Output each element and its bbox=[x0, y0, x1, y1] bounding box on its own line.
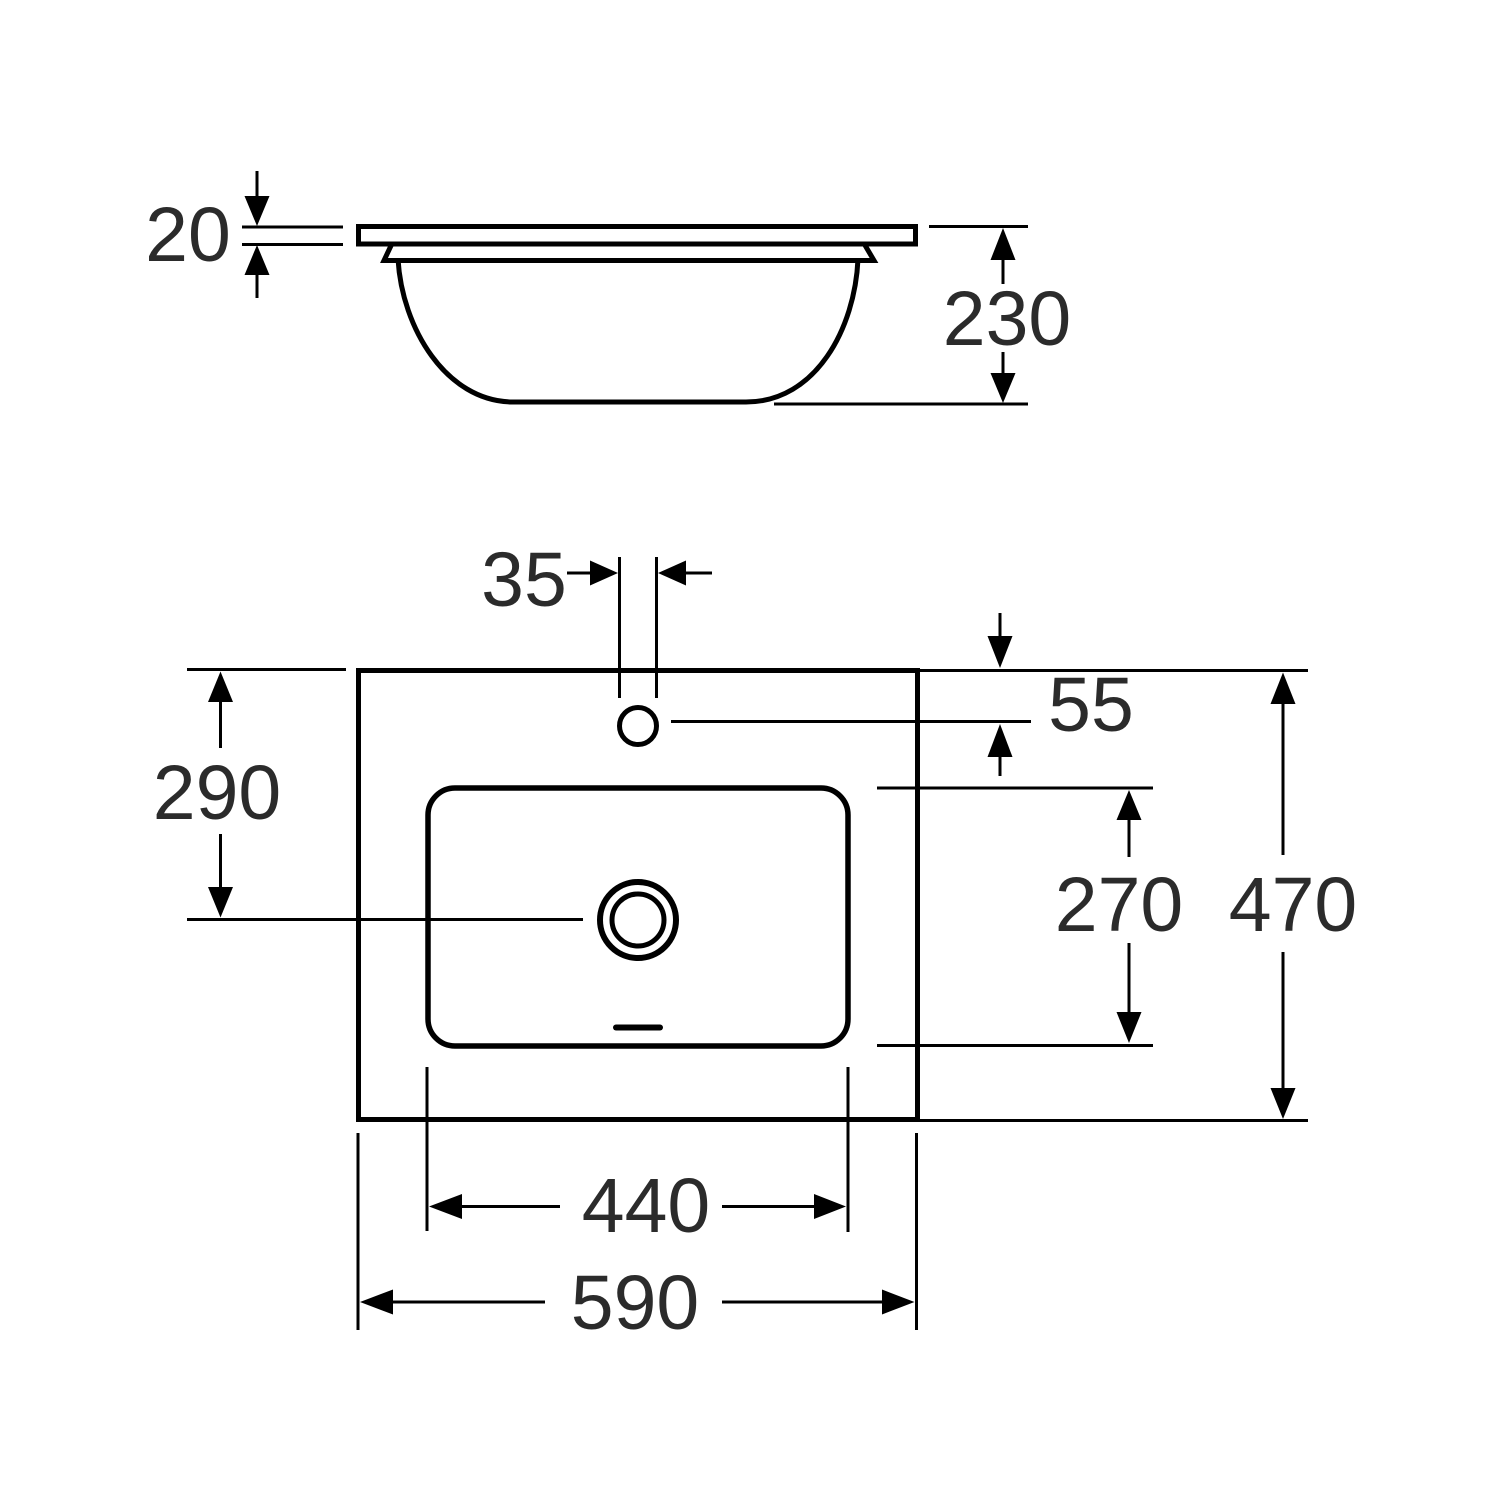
dimension 440: right arrow (points right) bbox=[722, 1205, 814, 1208]
dimension 470: upper arrow (points up) bbox=[1271, 673, 1296, 705]
dimension 440: right extension line bbox=[847, 1067, 850, 1232]
dimension 590: left arrow (points left) bbox=[360, 1290, 393, 1315]
dimension 290: lower arrow (points down) bbox=[219, 834, 222, 887]
dimension 35: right extension line bbox=[655, 557, 658, 698]
svg-text:20: 20 bbox=[145, 192, 231, 278]
faucet hole (35 mm) bbox=[620, 708, 657, 745]
dimension 270: lower arrow (points down) bbox=[1128, 943, 1131, 1013]
dimension 35: left arrow (points right) bbox=[567, 572, 590, 575]
dimension 230: upper arrow (points up) bbox=[991, 228, 1016, 260]
dimension 470: lower arrow (points down) bbox=[1282, 952, 1285, 1089]
dimension 590: left extension line bbox=[357, 1133, 360, 1330]
dimension 55: lower arrow (points up) bbox=[988, 724, 1013, 757]
dimension 20: top extension line bbox=[242, 226, 343, 229]
dimension 590: right arrow (points right) bbox=[722, 1301, 882, 1304]
dimension 230: top extension line bbox=[929, 225, 1028, 228]
svg-text:440: 440 bbox=[582, 1163, 710, 1249]
dimension 55: top extension line (rect top edge extended) bbox=[920, 669, 1308, 672]
dimension 20: lower arrow (points up) bbox=[245, 245, 270, 275]
drain inner circle bbox=[612, 894, 664, 946]
dimension 470: bottom extension line (rect bottom edge extended) bbox=[920, 1119, 1308, 1122]
countertop outline rectangle 590x470 bbox=[359, 671, 918, 1120]
dimension 20: upper arrow (points down) bbox=[256, 171, 259, 198]
inner basin rounded rectangle bbox=[428, 788, 848, 1046]
svg-text:470: 470 bbox=[1229, 862, 1357, 948]
svg-text:290: 290 bbox=[153, 750, 281, 836]
dimension 290: bottom extension line (through drain centre) bbox=[187, 918, 583, 921]
dimension 35: right arrow (points left) bbox=[658, 561, 686, 586]
dimension 35: left extension line bbox=[618, 557, 621, 698]
svg-text:230: 230 bbox=[943, 276, 1071, 362]
svg-text:35: 35 bbox=[481, 537, 567, 623]
svg-text:55: 55 bbox=[1048, 662, 1134, 748]
drain outer circle bbox=[600, 882, 676, 958]
dimension 290: top extension line bbox=[187, 668, 346, 671]
dimension 230: lower arrow (points down) bbox=[1002, 352, 1005, 373]
dimension 270: bottom extension line bbox=[877, 1044, 1153, 1047]
dimension 230: bottom extension line bbox=[774, 403, 1028, 406]
countertop slab (20 mm plate) bbox=[359, 227, 916, 245]
overflow slot bbox=[616, 1025, 660, 1031]
svg-text:590: 590 bbox=[571, 1260, 699, 1346]
svg-text:270: 270 bbox=[1055, 862, 1183, 948]
dimension 55: upper arrow (points down) bbox=[999, 613, 1002, 638]
dimension 590: right extension line bbox=[915, 1133, 918, 1330]
dimension 270: top extension line bbox=[877, 787, 1153, 790]
dimension 270: upper arrow (points up) bbox=[1117, 790, 1142, 820]
dimension 55: middle extension line (faucet centre) bbox=[671, 720, 1031, 723]
basin bowl (side profile) bbox=[398, 259, 858, 402]
dimension 20: bottom extension line bbox=[242, 243, 343, 246]
basin rim lip (trapezoid under slab) bbox=[384, 244, 874, 261]
dimension 440: left arrow (points left) bbox=[429, 1194, 462, 1219]
dimension 290: upper arrow (points up) bbox=[208, 672, 233, 703]
dimension 440: left extension line bbox=[426, 1067, 429, 1231]
